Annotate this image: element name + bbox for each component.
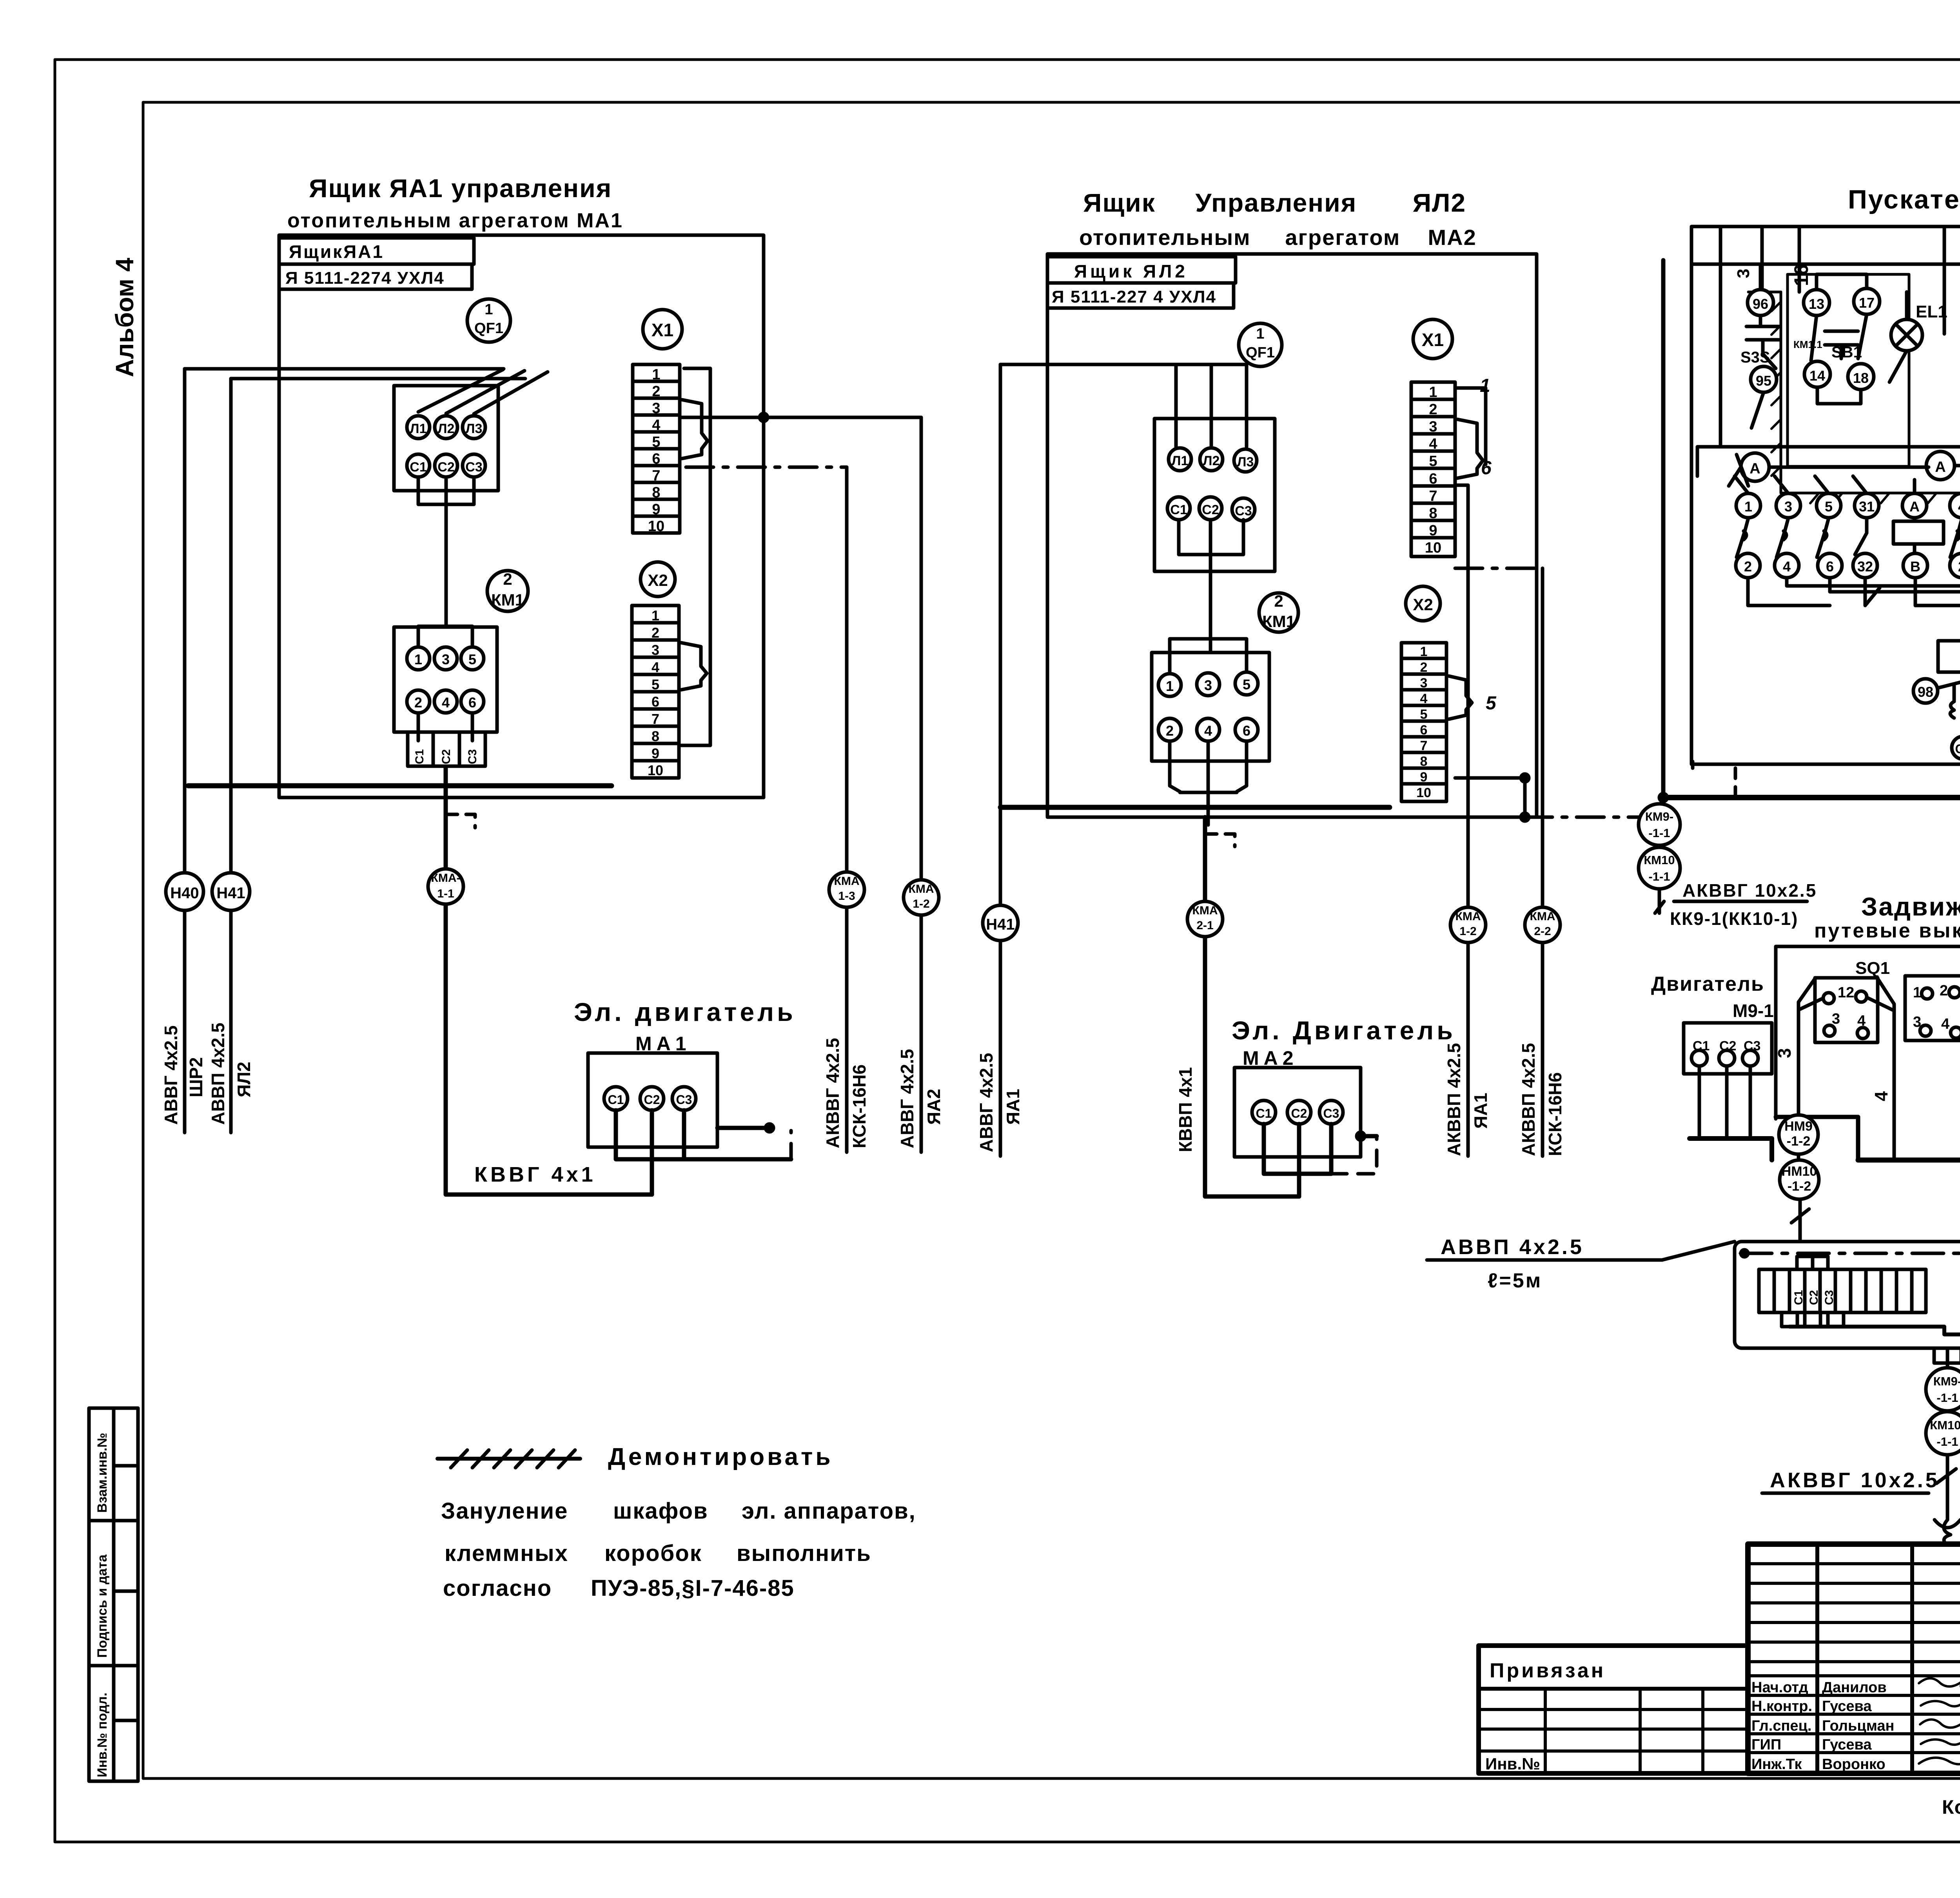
cable KMA-1-1 motor feed bbox=[446, 768, 652, 1195]
svg-text:С2: С2 bbox=[437, 460, 454, 475]
svg-text:С2: С2 bbox=[1719, 1039, 1736, 1053]
enclosure box YA2 bbox=[1047, 254, 1537, 817]
svg-text:6: 6 bbox=[1429, 471, 1437, 487]
lamp EL1 wire bbox=[1889, 292, 1907, 382]
motor leads C1 C2 C3 bbox=[1952, 736, 1960, 759]
svg-text:4: 4 bbox=[652, 659, 659, 675]
svg-text:С1: С1 bbox=[1693, 1039, 1710, 1053]
outlet U connector bbox=[1934, 1348, 1960, 1369]
svg-text:2: 2 bbox=[1274, 592, 1283, 610]
svg-text:4: 4 bbox=[1420, 691, 1428, 706]
svg-text:АКВВП 4х2.5: АКВВП 4х2.5 bbox=[1444, 1043, 1464, 1156]
terminal X2 callout YA2 bbox=[1406, 586, 1440, 621]
svg-text:-1-1: -1-1 bbox=[1936, 1391, 1958, 1405]
svg-text:А: А bbox=[1909, 499, 1920, 515]
svg-text:С3: С3 bbox=[1323, 1106, 1339, 1120]
svg-text:М9-1: М9-1 bbox=[1733, 1001, 1774, 1021]
svg-text:КСК-16Н6: КСК-16Н6 bbox=[1545, 1072, 1565, 1156]
svg-text:Воронко: Воронко bbox=[1822, 1756, 1886, 1773]
svg-text:Пускатель КМ9-1( КМ10-1): Пускатель КМ9-1( КМ10-1) bbox=[1848, 185, 1960, 214]
svg-text:согласно: согласно bbox=[443, 1575, 552, 1601]
svg-text:1-1: 1-1 bbox=[437, 887, 454, 900]
svg-text:1-3: 1-3 bbox=[838, 890, 855, 903]
type plate box bbox=[1047, 283, 1234, 308]
svg-text:2: 2 bbox=[1420, 660, 1428, 675]
svg-text:АКВВГ 10х2.5: АКВВГ 10х2.5 bbox=[1682, 880, 1817, 901]
svg-text:Инв.№ подл.: Инв.№ подл. bbox=[95, 1693, 110, 1777]
wire EL1 drop from top bbox=[1943, 227, 1946, 334]
hatched demount panel bbox=[1748, 292, 1960, 504]
bracket on X1 rows 3-5 bbox=[682, 400, 708, 459]
bus below YA1 bbox=[188, 783, 612, 789]
contact row bottom circles bbox=[1736, 553, 1960, 578]
svg-text:7: 7 bbox=[1420, 738, 1428, 753]
svg-text:8: 8 bbox=[1420, 754, 1428, 769]
svg-text:КВВП 4х1: КВВП 4х1 bbox=[1175, 1067, 1196, 1152]
breaker QF1 contact box bbox=[394, 386, 498, 491]
cable KMA-2-2 bbox=[1525, 907, 1560, 943]
svg-text:SВ1: SВ1 bbox=[1831, 344, 1862, 361]
wire feed bbox=[1000, 363, 1247, 366]
node A left bbox=[1741, 453, 1769, 481]
svg-text:С2: С2 bbox=[1202, 502, 1219, 517]
svg-text:1: 1 bbox=[1744, 499, 1752, 515]
contact 18 bbox=[1848, 364, 1874, 390]
cable H41 (to YA1) bbox=[999, 364, 1002, 1156]
svg-text:КМА: КМА bbox=[834, 875, 860, 888]
svg-text:2: 2 bbox=[1429, 401, 1437, 418]
svg-text:КВВГ 4х1: КВВГ 4х1 bbox=[474, 1163, 596, 1186]
svg-text:КК9-1(КК10-1): КК9-1(КК10-1) bbox=[1670, 908, 1798, 929]
svg-text:1: 1 bbox=[1256, 326, 1264, 342]
svg-text:5: 5 bbox=[652, 434, 660, 450]
type plate box bbox=[279, 264, 472, 289]
svg-text:Инв.№: Инв.№ bbox=[1485, 1755, 1540, 1773]
contactor KM1 box YA2 bbox=[1152, 653, 1269, 761]
bracket X1 rows 3-5 YA2 bbox=[1457, 419, 1483, 478]
QF1 poles L1 L2 L3 bbox=[407, 416, 430, 439]
KM1 poles 2 4 6 bbox=[1158, 718, 1181, 741]
svg-text:отопительным агрегатом МА1: отопительным агрегатом МА1 bbox=[287, 209, 623, 232]
svg-text:В: В bbox=[1910, 558, 1920, 575]
terminal strip X2 bbox=[632, 605, 679, 778]
bus below YA2 bbox=[1000, 805, 1390, 810]
wire QF1 to KM1 bbox=[418, 477, 474, 627]
svg-text:Я 5111-2274 УХЛ4: Я 5111-2274 УХЛ4 bbox=[285, 268, 445, 288]
svg-text:5: 5 bbox=[1825, 499, 1833, 515]
svg-text:АВВП 4х2.5: АВВП 4х2.5 bbox=[1441, 1235, 1584, 1259]
bus A row bbox=[1697, 447, 1960, 476]
svg-text:шкафов: шкафов bbox=[613, 1498, 708, 1524]
svg-text:6: 6 bbox=[1420, 723, 1428, 738]
svg-text:С2: С2 bbox=[644, 1093, 660, 1107]
svg-text:Ящик Управления ЯЛ2: Ящик Управления ЯЛ2 bbox=[1083, 188, 1466, 217]
svg-text:3: 3 bbox=[1734, 269, 1753, 278]
svg-text:КМА: КМА bbox=[1455, 910, 1481, 923]
motor MA2 box bbox=[1234, 1068, 1361, 1157]
svg-text:-1-2: -1-2 bbox=[1788, 1179, 1811, 1194]
svg-text:Л1: Л1 bbox=[1172, 453, 1189, 468]
cable H41 bbox=[229, 379, 233, 1133]
svg-text:9: 9 bbox=[1429, 522, 1437, 539]
svg-text:АКВВГ 4х2.5: АКВВГ 4х2.5 bbox=[822, 1038, 843, 1148]
hatched demolish line bbox=[437, 1457, 580, 1461]
wire from X1 right down bbox=[681, 368, 710, 745]
main stamp table bbox=[1748, 1544, 1960, 1775]
svg-text:95: 95 bbox=[1756, 373, 1771, 389]
svg-text:-1-1: -1-1 bbox=[1648, 870, 1670, 883]
svg-text:1: 1 bbox=[485, 301, 493, 318]
svg-text:С1: С1 bbox=[1170, 502, 1187, 517]
button block SB1 group: contact 13 bbox=[1804, 290, 1829, 315]
svg-text:3: 3 bbox=[442, 651, 450, 667]
name plate box bbox=[279, 238, 474, 264]
svg-text:КМ10: КМ10 bbox=[1644, 853, 1675, 867]
left heavy drop bbox=[1661, 260, 1666, 798]
svg-text:ℓ=5м: ℓ=5м bbox=[1488, 1269, 1542, 1292]
breaker QF1 callout bbox=[1239, 323, 1282, 366]
KM1 output hooks YA2 bbox=[1170, 741, 1247, 825]
svg-text:7: 7 bbox=[652, 711, 659, 727]
svg-text:Л2: Л2 bbox=[1203, 453, 1220, 468]
svg-text:КМ1: КМ1 bbox=[491, 591, 524, 609]
svg-text:Копировал Подлевская: Копировал Подлевская bbox=[1942, 1796, 1960, 1818]
dash-dot bus in box bbox=[1740, 1252, 1960, 1255]
svg-text:5: 5 bbox=[1429, 453, 1437, 470]
svg-text:8: 8 bbox=[652, 728, 659, 744]
svg-text:-1-1: -1-1 bbox=[1936, 1435, 1958, 1448]
wire 16 bbox=[1798, 227, 1801, 292]
svg-text:6: 6 bbox=[1826, 558, 1834, 575]
svg-text:Гольцман: Гольцман bbox=[1822, 1718, 1894, 1734]
svg-text:QF1: QF1 bbox=[1246, 344, 1275, 361]
wires into QF1 bbox=[1176, 364, 1247, 447]
svg-text:3: 3 bbox=[652, 400, 660, 417]
svg-text:С3: С3 bbox=[465, 460, 482, 475]
svg-text:4: 4 bbox=[1941, 1016, 1949, 1032]
svg-text:7: 7 bbox=[652, 468, 660, 484]
cable NM9-1-2 column bbox=[1797, 1002, 1800, 1115]
svg-text:1-2: 1-2 bbox=[913, 897, 929, 910]
svg-text:А: А bbox=[1749, 460, 1760, 477]
motor leads bbox=[1693, 1066, 1756, 1138]
privyazan sub-table bbox=[1479, 1646, 1748, 1773]
svg-text:2: 2 bbox=[652, 383, 660, 400]
contactor KM1 callout YA2 bbox=[1259, 593, 1298, 632]
svg-text:выполнить: выполнить bbox=[737, 1541, 871, 1566]
wires SB1 group bbox=[1817, 274, 1867, 404]
svg-text:1: 1 bbox=[1420, 644, 1428, 659]
svg-text:ШР2: ШР2 bbox=[186, 1057, 206, 1098]
svg-text:С1: С1 bbox=[1955, 742, 1960, 756]
svg-text:Л1: Л1 bbox=[410, 421, 427, 436]
KM1 pole stubs bbox=[418, 713, 472, 741]
motor MA2 terminals bbox=[1252, 1100, 1276, 1124]
svg-text:КМ9-: КМ9- bbox=[1645, 810, 1673, 823]
svg-text:КМА-: КМА- bbox=[431, 872, 461, 885]
contactor KM1 callout bbox=[487, 571, 528, 611]
wire X1 row1 to col bbox=[1455, 388, 1486, 464]
svg-text:-1-1: -1-1 bbox=[1648, 826, 1670, 840]
svg-text:2: 2 bbox=[1744, 558, 1752, 575]
pushbutton S3S bbox=[1746, 315, 1780, 368]
svg-text:2: 2 bbox=[1940, 983, 1948, 999]
svg-text:4: 4 bbox=[1871, 1091, 1891, 1101]
svg-text:С3: С3 bbox=[1235, 504, 1252, 518]
svg-text:SQ1: SQ1 bbox=[1855, 959, 1890, 978]
KM1 poles 1 3 5 bbox=[407, 647, 430, 670]
feeder wire bbox=[1719, 227, 1722, 447]
svg-text:6: 6 bbox=[468, 694, 476, 711]
svg-text:1: 1 bbox=[652, 607, 659, 624]
svg-text:X1: X1 bbox=[652, 320, 673, 340]
switch blades row bbox=[1737, 518, 1960, 557]
svg-text:3: 3 bbox=[1429, 419, 1437, 435]
svg-text:А: А bbox=[1935, 459, 1945, 475]
interconnect wires below rows bbox=[1748, 578, 1960, 611]
svg-text:5: 5 bbox=[1243, 676, 1250, 692]
name plate box bbox=[1047, 257, 1236, 283]
motor MA1 wiring bbox=[616, 1110, 791, 1195]
enclosure box YA1 bbox=[279, 235, 764, 798]
svg-text:31: 31 bbox=[1859, 499, 1875, 515]
wire bus to contacts bbox=[1729, 427, 1960, 486]
contact 14 bbox=[1804, 361, 1830, 387]
svg-text:ЯщикЯА1: ЯщикЯА1 bbox=[289, 241, 384, 262]
svg-text:5: 5 bbox=[652, 676, 659, 692]
svg-text:2: 2 bbox=[1958, 558, 1960, 575]
svg-text:10: 10 bbox=[648, 762, 663, 778]
svg-text:Н.контр.: Н.контр. bbox=[1751, 1698, 1812, 1715]
dash jog bbox=[1205, 834, 1235, 847]
svg-text:С1: С1 bbox=[410, 460, 426, 475]
button group SB1 enclosure bbox=[1788, 274, 1909, 466]
svg-text:Зануление: Зануление bbox=[441, 1498, 568, 1524]
svg-text:18: 18 bbox=[1853, 370, 1869, 386]
svg-text:ЯЛ2: ЯЛ2 bbox=[234, 1062, 254, 1097]
svg-text:10: 10 bbox=[1425, 540, 1441, 556]
KM1 poles 2 4 6 bbox=[407, 690, 430, 713]
QF1 poles L1 L2 L3 bbox=[1169, 448, 1191, 471]
svg-text:КМ1: КМ1 bbox=[1262, 612, 1295, 631]
svg-text:17: 17 bbox=[1859, 295, 1875, 311]
svg-text:Я 5111-227 4 УХЛ4: Я 5111-227 4 УХЛ4 bbox=[1052, 287, 1216, 306]
wire X1 row6 to col bbox=[1455, 485, 1468, 1156]
svg-text:АВВП 4х2.5: АВВП 4х2.5 bbox=[208, 1022, 228, 1125]
cable KM9-1-1 bottom bbox=[1926, 1368, 1960, 1411]
svg-text:АВВГ 4х2.5: АВВГ 4х2.5 bbox=[161, 1025, 181, 1125]
svg-text:Демонтировать: Демонтировать bbox=[608, 1443, 833, 1470]
svg-text:4: 4 bbox=[1958, 499, 1960, 515]
svg-text:Л3: Л3 bbox=[1237, 455, 1254, 470]
svg-text:14: 14 bbox=[1809, 368, 1825, 384]
svg-text:Н40: Н40 bbox=[170, 885, 199, 902]
svg-text:КМА: КМА bbox=[909, 883, 934, 896]
bottom heavy bus bbox=[1663, 795, 1960, 800]
svg-text:X2: X2 bbox=[1413, 595, 1433, 614]
svg-text:2: 2 bbox=[652, 625, 659, 641]
bracket on X2 rows 3-5 bbox=[681, 643, 707, 690]
svg-text:3: 3 bbox=[1204, 677, 1212, 693]
label AKVVG 10x2.5 bottom bbox=[1762, 1469, 1956, 1493]
svg-text:Эл. Двигатель: Эл. Двигатель bbox=[1232, 1016, 1456, 1045]
svg-text:32: 32 bbox=[1857, 558, 1873, 575]
svg-text:4: 4 bbox=[1783, 558, 1791, 575]
svg-text:8: 8 bbox=[652, 484, 660, 501]
svg-text:98: 98 bbox=[1918, 684, 1933, 700]
internal bus to outlet bbox=[1789, 1327, 1960, 1334]
left columns bbox=[1817, 1544, 1960, 1773]
wire 3 bbox=[1760, 227, 1764, 298]
svg-text:Подпись и дата: Подпись и дата bbox=[95, 1554, 110, 1658]
contact 96 bbox=[1748, 290, 1773, 315]
dashed link bbox=[1734, 768, 1737, 798]
svg-text:96: 96 bbox=[1753, 296, 1768, 312]
svg-text:АКВВГ 10х2.5: АКВВГ 10х2.5 bbox=[1770, 1468, 1940, 1492]
svg-text:5: 5 bbox=[468, 651, 476, 667]
svg-text:4: 4 bbox=[652, 417, 660, 433]
pushbutton SB1 bbox=[1811, 314, 1867, 361]
svg-text:Гусева: Гусева bbox=[1822, 1737, 1872, 1753]
cable KM10-1-1 bottom bbox=[1926, 1412, 1960, 1455]
svg-text:6: 6 bbox=[652, 694, 659, 710]
svg-text:Гл.спец.: Гл.спец. bbox=[1751, 1718, 1811, 1734]
wire to KMA-2-2 column bbox=[1541, 568, 1544, 1156]
svg-text:С2: С2 bbox=[440, 749, 453, 764]
terminal strip X1 YA2 bbox=[1411, 382, 1455, 557]
cable H40 bbox=[183, 369, 187, 1133]
svg-text:Л2: Л2 bbox=[438, 421, 455, 436]
svg-text:Двигатель: Двигатель bbox=[1651, 973, 1764, 995]
svg-text:9: 9 bbox=[652, 501, 660, 518]
svg-text:ЕL1: ЕL1 bbox=[1916, 302, 1947, 321]
dash-dot from strip bbox=[1455, 568, 1664, 817]
contact box B1 bbox=[1905, 976, 1960, 1041]
lead to ground bbox=[1946, 1455, 1949, 1520]
svg-text:С3: С3 bbox=[676, 1093, 692, 1107]
svg-text:Гусева: Гусева bbox=[1822, 1698, 1872, 1715]
svg-text:отопительным агрегатом: отопительным агрегатом МА2 bbox=[1079, 225, 1477, 250]
fan wires to contact row bbox=[1735, 476, 1960, 493]
svg-text:10: 10 bbox=[1416, 785, 1431, 800]
svg-text:QF1: QF1 bbox=[474, 320, 503, 337]
svg-text:9: 9 bbox=[652, 745, 659, 761]
wire bracket into KM1 YA2 bbox=[1170, 639, 1247, 673]
svg-text:коробок: коробок bbox=[604, 1541, 702, 1566]
aux contact 98 bbox=[1913, 679, 1938, 703]
svg-text:КМ1.1: КМ1.1 bbox=[1793, 339, 1822, 350]
breaker QF1 callout bbox=[467, 299, 510, 342]
node A mid bbox=[1926, 451, 1955, 480]
motor MA2 ground dash bbox=[1331, 1136, 1377, 1174]
coil KM9 bbox=[1893, 521, 1944, 544]
svg-text:С3: С3 bbox=[1744, 1039, 1760, 1053]
svg-text:1: 1 bbox=[652, 366, 660, 383]
svg-text:НМ9: НМ9 bbox=[1784, 1119, 1813, 1134]
svg-text:Ящик ЯЛ2: Ящик ЯЛ2 bbox=[1074, 261, 1188, 281]
svg-text:ПУЭ-85,§I-7-46-85: ПУЭ-85,§I-7-46-85 bbox=[591, 1575, 795, 1601]
svg-text:Эл. двигатель: Эл. двигатель bbox=[574, 997, 796, 1026]
breaker QF1 contact box YA2 bbox=[1154, 419, 1275, 571]
terminal X1 callout bbox=[643, 310, 682, 349]
svg-text:С2: С2 bbox=[1808, 1290, 1820, 1305]
terminal X1 callout bbox=[1413, 319, 1452, 359]
svg-text:Данилов: Данилов bbox=[1822, 1679, 1887, 1696]
svg-text:Нач.отд: Нач.отд bbox=[1751, 1679, 1808, 1696]
wire bus segment left bbox=[1776, 1117, 1858, 1160]
terminal strip X2 YA2 bbox=[1401, 643, 1446, 801]
svg-text:3: 3 bbox=[1420, 676, 1428, 691]
svg-text:Н41: Н41 bbox=[986, 916, 1014, 933]
limit switch SQ1 bbox=[1798, 959, 1894, 1160]
svg-text:ЯА1: ЯА1 bbox=[1470, 1093, 1491, 1129]
QF1 poles C1 C2 C3 bbox=[407, 454, 430, 477]
svg-text:1: 1 bbox=[1429, 384, 1437, 401]
cable NM10-1-2 bbox=[1780, 1160, 1819, 1199]
svg-text:НМ10: НМ10 bbox=[1782, 1164, 1817, 1179]
QF1 poles C1 C2 C3 bbox=[1167, 497, 1190, 520]
wire feed L bbox=[185, 369, 525, 379]
cable KM10-1-1 bbox=[1639, 847, 1680, 889]
lamp EL1 bbox=[1891, 319, 1922, 351]
svg-text:2: 2 bbox=[414, 694, 422, 711]
motor MA1 ground dash bbox=[789, 1131, 793, 1159]
cable KMA-1-2 bbox=[920, 417, 923, 1152]
svg-text:6: 6 bbox=[652, 451, 660, 467]
svg-text:1: 1 bbox=[1166, 678, 1174, 694]
album label bbox=[111, 257, 139, 377]
svg-text:2: 2 bbox=[503, 570, 512, 588]
svg-text:Н41: Н41 bbox=[216, 885, 245, 902]
svg-text:путевые выключатели: путевые выключатели bbox=[1814, 919, 1960, 942]
svg-text:С3: С3 bbox=[1823, 1290, 1836, 1305]
svg-text:3: 3 bbox=[652, 642, 659, 658]
cable KMA-1-3 bbox=[845, 467, 849, 1152]
svg-text:АВВГ 4х2.5: АВВГ 4х2.5 bbox=[897, 1049, 917, 1148]
svg-text:клеммных: клеммных bbox=[445, 1541, 568, 1566]
left terminal bars bbox=[1759, 1256, 1926, 1327]
svg-text:2: 2 bbox=[1166, 723, 1174, 739]
svg-text:1-2: 1-2 bbox=[1459, 925, 1476, 938]
contact row top circles bbox=[1736, 493, 1960, 518]
contactor KM1 box bbox=[394, 627, 497, 732]
svg-text:КСК-16Н6: КСК-16Н6 bbox=[849, 1064, 869, 1148]
thermal relay KK9 box bbox=[1938, 641, 1960, 672]
svg-text:4: 4 bbox=[1429, 436, 1437, 452]
label AKVVG10x2.5 / KK9-1 bbox=[1655, 901, 1807, 913]
svg-text:Л3: Л3 bbox=[466, 421, 483, 436]
svg-text:10: 10 bbox=[648, 518, 664, 535]
svg-text:ЯА2: ЯА2 bbox=[924, 1089, 944, 1125]
SQ contact diagonals bbox=[1800, 997, 1960, 1064]
bottom bus bbox=[1858, 1158, 1960, 1163]
svg-text:С3: С3 bbox=[466, 749, 479, 764]
wire diagonals into QF1 bbox=[418, 370, 548, 414]
cable KMA-2-1 motor feed bbox=[1205, 817, 1299, 1196]
svg-text:КМ9-: КМ9- bbox=[1933, 1374, 1960, 1388]
svg-text:-1-2: -1-2 bbox=[1787, 1134, 1810, 1149]
terminal X2 callout bbox=[641, 562, 675, 596]
svg-text:Привязан: Привязан bbox=[1490, 1659, 1606, 1682]
svg-text:Альбом 4: Альбом 4 bbox=[111, 257, 139, 377]
terminal box enclosure bbox=[1735, 1242, 1960, 1348]
starter enclosure box bbox=[1691, 227, 1960, 764]
dash-dot wire X2 to right bbox=[686, 466, 847, 469]
ground hook bbox=[1935, 1520, 1960, 1544]
svg-text:КМ10-: КМ10- bbox=[1930, 1418, 1960, 1432]
svg-text:S3S: S3S bbox=[1740, 349, 1770, 366]
svg-text:С1: С1 bbox=[1256, 1106, 1272, 1120]
